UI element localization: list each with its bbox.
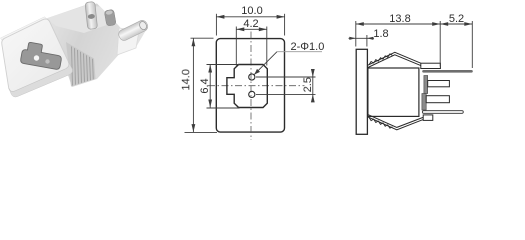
dimension 13.8 — [356, 21, 440, 67]
bottom latch roof — [368, 115, 424, 130]
svg-text:6.4: 6.4 — [199, 78, 211, 93]
photo: rear cap — [117, 28, 139, 55]
svg-text:2-Φ1.0: 2-Φ1.0 — [291, 41, 325, 53]
photo: flange plate bottom thickness — [9, 62, 73, 97]
pin base bar lower — [422, 94, 426, 111]
dimension 6.4 — [207, 65, 240, 109]
leader 2-PHI1.0 — [254, 52, 322, 75]
dimension 2.5 — [256, 69, 316, 102]
photo: pin 2 — [117, 19, 149, 42]
bottom step block — [423, 115, 433, 121]
svg-text:13.8: 13.8 — [389, 13, 410, 25]
dimension 5.2 — [440, 21, 472, 68]
vertical centerline — [250, 32, 252, 141]
photo: socket opening (C8 cavity) — [20, 41, 63, 70]
front view cavity outline — [227, 65, 267, 108]
horizontal centerline — [208, 85, 305, 87]
top plate — [421, 63, 441, 68]
hole upper — [249, 74, 255, 80]
photo: metal stud between pins — [104, 9, 116, 26]
svg-text:1.8: 1.8 — [373, 28, 388, 40]
front view outer outline — [216, 39, 284, 133]
top latch roof — [368, 52, 421, 67]
bottom thin pin — [422, 111, 463, 114]
dimension 1.8 — [349, 35, 375, 47]
middle pin — [428, 81, 450, 87]
photo: flange plate front face — [2, 19, 69, 92]
photo: body top face highlight — [47, 6, 115, 33]
side view flange — [356, 49, 367, 134]
photo: plate top edge thickness highlight — [1, 17, 47, 40]
lower pin — [426, 96, 449, 103]
hole lower — [249, 91, 255, 97]
dimension 10.0 — [216, 14, 284, 36]
photo: pin 1 — [85, 2, 98, 30]
svg-text:4.2: 4.2 — [243, 18, 258, 30]
top long pin (5.2) — [424, 70, 472, 73]
svg-text:2.5: 2.5 — [302, 77, 314, 92]
photo: pin dot inside opening — [34, 55, 39, 60]
svg-text:10.0: 10.0 — [241, 5, 262, 17]
photo: ribbed side face — [66, 42, 96, 87]
svg-text:5.2: 5.2 — [449, 13, 464, 25]
pin base bar upper — [424, 76, 428, 94]
product photo: AC inlet socket 3D view — [1, 2, 150, 97]
side view body box — [368, 68, 419, 116]
photo: molded body slab — [42, 4, 147, 88]
svg-text:14.0: 14.0 — [180, 69, 192, 90]
dimension 4.2 — [236, 27, 266, 66]
dimension 14.0 — [185, 38, 218, 132]
